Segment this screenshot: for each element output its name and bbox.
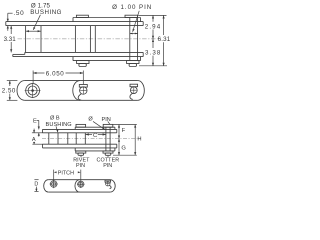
text labels bottom diagram (32, 116, 142, 188)
pin leaders bottom diagram (93, 121, 105, 129)
pin cap 1 (76, 15, 88, 17)
svg-text:Ø 1.00 PIN: Ø 1.00 PIN (112, 4, 152, 11)
bottom diagram top sidebar (43, 128, 117, 130)
plan hole H1 (roller) (26, 84, 40, 98)
bottom diagram bottom sidebar (43, 143, 117, 145)
bottom diagram raised outer bar (75, 126, 115, 128)
bottom diagram lowered outer bar (75, 150, 115, 152)
dimension A extension lines (32, 132, 43, 134)
plan view: 2.50 dimension (9, 81, 11, 86)
svg-text:BUSHING: BUSHING (46, 122, 72, 128)
extension lines right bottom diagram (113, 124, 137, 126)
dimension F (118, 125, 120, 139)
svg-text:F: F (122, 128, 126, 134)
pin leader line (133, 11, 140, 32)
bushing block B1 (25, 26, 27, 53)
svg-text:A: A (32, 137, 36, 143)
dimension .50 bracket (8, 12, 13, 14)
bottom plan: D dimension (34, 179, 38, 181)
bottom diagram bushing block B1 (48, 133, 50, 144)
svg-text:G: G (121, 145, 126, 151)
right extension line bottom (139, 65, 167, 67)
bottom diagram cotter foot T2 (103, 151, 113, 153)
pin diameter dimension (130, 33, 138, 35)
raised outer sidebar (73, 17, 141, 19)
dimension G (118, 139, 120, 156)
bottom plan plate 2 right end (110, 180, 115, 192)
svg-text:D: D (34, 182, 38, 188)
svg-text:PIN: PIN (76, 163, 85, 169)
svg-text:2.94: 2.94 (145, 23, 161, 30)
dimension 6.31 (163, 15, 165, 35)
svg-text:BUSHING: BUSHING (30, 9, 62, 16)
bottom diagram pin cap 1 (76, 124, 86, 127)
bottom diagram bushing block B2 (75, 133, 77, 144)
cotter pin label leader (107, 156, 109, 158)
svg-text:C: C (93, 133, 97, 139)
right extension line top (138, 14, 166, 16)
text labels top view (2, 3, 171, 95)
bottom bushing leader (56, 126, 58, 132)
dimension C (86, 134, 92, 136)
plan view plate 2 right end (138, 81, 144, 101)
svg-text:H: H (137, 137, 141, 143)
top sidebar (edge view) (6, 21, 143, 23)
svg-text:Ø: Ø (88, 117, 93, 123)
svg-text:3.38: 3.38 (145, 49, 161, 56)
bushing B1 diameter dimension (26, 30, 41, 32)
svg-text:.50: .50 (13, 10, 24, 17)
dimension A arrows (33, 129, 35, 133)
inner link end line (94, 26, 96, 53)
lowered outer sidebar (73, 60, 141, 62)
plan view sidebar plate 1 (17, 81, 25, 101)
bottom diagram pin cap 2 (103, 124, 113, 127)
svg-text:2.50: 2.50 (2, 87, 16, 94)
plan pin H3 with cotter (130, 87, 137, 94)
dimension 2.94 (152, 15, 154, 21)
dimension 3.38 (152, 39, 154, 48)
rivet pin foot T2 (127, 61, 139, 64)
bottom plan pin H3 with cotter (106, 181, 111, 186)
bottom plan plate 1 (44, 180, 49, 192)
dimension H (134, 125, 136, 156)
pin cap 2 (125, 15, 138, 17)
svg-text:PITCH: PITCH (58, 171, 74, 177)
svg-text:3.31: 3.31 (4, 36, 17, 43)
svg-text:Ø B: Ø B (50, 116, 60, 122)
bottom plan hole H1 (50, 181, 57, 188)
svg-text:6.31: 6.31 (158, 36, 171, 43)
svg-text:PIN: PIN (103, 163, 112, 169)
bushing leader line (33, 15, 40, 30)
plan pin H2 with cotter (80, 87, 87, 94)
bottom plan hole H2 (78, 181, 84, 187)
plan view: 6.050 dimension (32, 71, 34, 84)
bottom plan plate 2 overlap arc (75, 180, 80, 192)
svg-text:6.050: 6.050 (46, 70, 64, 77)
bottom plan: pitch dimension (53, 170, 55, 175)
plan view sidebar plate 2 overlap arc (73, 81, 80, 101)
rivet pin label leader (80, 156, 82, 158)
centerline top view (18, 38, 161, 40)
svg-text:E: E (33, 118, 37, 124)
bottom diagram rivet foot T1 (76, 151, 86, 153)
svg-text:PIN: PIN (102, 117, 111, 123)
bottom diagram pin 2 shaft (105, 127, 107, 151)
bottom diagram outer link end line (67, 133, 69, 144)
plan view 2.50 extension ticks (7, 80, 18, 82)
bushing block B2 (74, 26, 76, 53)
centerline bottom view (42, 138, 140, 140)
dimension E bracket (37, 119, 39, 121)
rivet pin foot T1 (77, 61, 89, 64)
bottom sidebar (edge view) (25, 51, 143, 53)
dimension 3.31 (10, 26, 12, 34)
pin 2 shaft (129, 18, 131, 61)
